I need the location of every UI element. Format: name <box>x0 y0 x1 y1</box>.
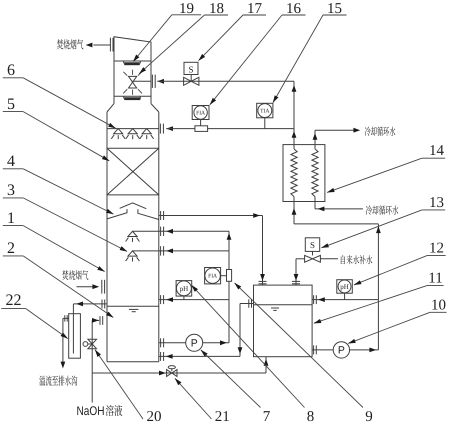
pH meter 12 (tank loop) <box>337 280 353 294</box>
svg-text:4: 4 <box>7 153 15 170</box>
flue gas outlet duct flange at tower top <box>93 44 110 46</box>
HX coil 1 (process side) <box>291 149 297 197</box>
wall flange on spray header <box>159 124 161 134</box>
svg-text:2: 2 <box>7 240 15 257</box>
svg-text:12: 12 <box>429 241 444 257</box>
drain downpipe from standpipe <box>62 318 64 362</box>
svg-text:FIA: FIA <box>208 274 217 280</box>
NaOH sump flange <box>99 316 101 325</box>
pH1 stem <box>183 296 185 300</box>
nozzle line 2 <box>133 250 230 252</box>
text 冷却循环水 (cooling water, top) <box>365 127 396 136</box>
tank pump 10 (P) <box>333 342 349 358</box>
svg-text:9: 9 <box>365 409 373 425</box>
pump P1 suction line <box>159 342 186 344</box>
lower spray nozzle 3b <box>128 251 137 256</box>
tank discharge riser <box>377 224 379 350</box>
svg-text:pH: pH <box>180 285 189 293</box>
text 自来水补水 (tap water makeup) <box>341 255 373 264</box>
demister pad (lower) <box>123 96 125 98</box>
solenoid S 17 <box>184 62 198 74</box>
spray nozzle 6 (left) <box>114 129 123 134</box>
HX coil 2 (cooling side) <box>312 149 318 197</box>
TIA stem <box>264 118 266 129</box>
sump level symbol <box>129 308 138 310</box>
tank pump discharge <box>350 349 379 351</box>
svg-text:pH: pH <box>340 283 349 291</box>
tank inlet flange (tray drain) <box>259 280 267 282</box>
tap water supply line <box>320 258 338 260</box>
svg-text:S: S <box>188 65 193 75</box>
svg-text:8: 8 <box>307 409 315 425</box>
flue gas inlet duct flange <box>101 280 103 294</box>
svg-text:22: 22 <box>6 292 22 309</box>
spray header 5 line <box>107 128 159 130</box>
circulation tank 11 <box>254 285 313 357</box>
tap water down arrow <box>294 274 299 281</box>
packing section 5 (X bed) <box>107 147 159 149</box>
overflow arrow <box>76 302 83 307</box>
label text 焚烧烟气 (incinerated flue gas, outlet) <box>57 39 84 49</box>
circulation pump 7 (P) <box>186 334 203 351</box>
tank pump suction flange <box>313 345 315 354</box>
svg-text:NaOH: NaOH <box>77 404 105 418</box>
collection tray right plate <box>138 209 159 219</box>
tower top wall flange on wash line <box>151 75 153 88</box>
return downflow arrow <box>238 347 243 354</box>
solenoid S 13 (tap water) <box>305 238 319 252</box>
wash water line into tower top <box>133 80 151 82</box>
sump drain line <box>92 372 266 374</box>
svg-text:FIA: FIA <box>196 111 205 117</box>
spray nozzle (middle) <box>128 129 137 134</box>
mist-eliminator wash nozzle 18 (X symbol) <box>129 76 137 82</box>
text 溢流至排水沟 (overflow to drain ditch) <box>39 376 77 386</box>
wash water pipe from valve <box>157 80 294 82</box>
riser-to-HX header <box>294 223 378 225</box>
flow indicator FIA 16 <box>192 106 209 120</box>
svg-text:5: 5 <box>7 96 15 113</box>
wall flange nozzle line 1 <box>160 227 162 236</box>
pH2 stem <box>344 293 346 299</box>
pH meter 8 (sump loop) <box>176 281 192 297</box>
tank pH return line <box>312 299 378 301</box>
svg-text:P: P <box>191 338 198 350</box>
return wall flange <box>160 352 162 361</box>
spray feed pipe <box>166 128 294 130</box>
NaOH line into sump <box>92 319 99 321</box>
flue gas inlet arrow line <box>77 286 93 288</box>
drain valve 21 <box>167 370 172 377</box>
wall flange nozzle line 2 <box>160 246 162 255</box>
svg-text:1: 1 <box>7 210 15 227</box>
overflow wall flange <box>101 300 103 309</box>
overflow standpipe 22 <box>69 314 81 359</box>
svg-text:7: 7 <box>263 409 271 425</box>
tower inlet text 焚烧烟气 (flue gas inlet) <box>62 270 88 280</box>
tank pH flange <box>313 295 315 304</box>
cooling water inlet pipe <box>314 197 316 209</box>
S13 stem <box>312 251 314 255</box>
tank pump suction <box>312 349 333 351</box>
tray drain line to circulation tank <box>159 215 263 217</box>
svg-text:6: 6 <box>7 62 15 79</box>
svg-text:TIA: TIA <box>260 109 269 115</box>
NaOH valve 20 <box>88 339 97 344</box>
tap water tank flange <box>292 280 300 282</box>
pump P1 discharge <box>203 342 229 344</box>
svg-text:21: 21 <box>215 409 230 425</box>
pH line wall flange <box>160 295 162 304</box>
cooling water outlet pipe <box>314 130 316 149</box>
svg-text:3: 3 <box>7 182 15 199</box>
FIA stem <box>221 275 227 277</box>
overflow line from sump <box>73 303 107 305</box>
HX process inlet pipe <box>293 197 295 224</box>
svg-text:14: 14 <box>429 143 445 159</box>
spray nozzle (right) <box>142 129 151 134</box>
tank level symbol <box>271 307 279 309</box>
return tank flange <box>248 299 250 308</box>
standpipe side stub flange <box>63 317 69 319</box>
svg-text:13: 13 <box>429 195 444 211</box>
flow indicator FIA 8-loop <box>205 268 221 284</box>
demister support line 1 <box>114 60 151 62</box>
pH sample line <box>159 299 229 301</box>
liquid collection tray 4 (chevron cap) <box>120 203 147 209</box>
FIA16 stem <box>200 120 202 126</box>
flow element 9 (rotameter) <box>227 270 232 282</box>
heat exchanger 14 shell <box>283 145 325 202</box>
HX process outlet riser <box>293 81 295 149</box>
tank-to-sump return line <box>159 355 240 357</box>
S17 stem <box>190 75 192 82</box>
nozzle line 1 <box>133 230 230 232</box>
nozzle line 2 arrow <box>166 249 173 254</box>
pump suction flange <box>160 338 162 347</box>
spray feed arrow into tower <box>166 126 173 131</box>
tap water valve <box>305 255 313 262</box>
return arrow into sump <box>166 354 173 359</box>
riser to lower nozzles <box>228 231 230 342</box>
orifice flow element <box>195 126 208 132</box>
demister support line 2 <box>114 95 151 97</box>
NaOH solution riser <box>91 320 93 402</box>
drain riser into tank <box>265 357 267 373</box>
sump liquid surface <box>107 305 159 307</box>
svg-text:P: P <box>338 345 345 357</box>
tray drain wall flange <box>160 211 162 220</box>
pH line arrow into sump <box>166 297 173 302</box>
wash water control valve <box>184 77 192 85</box>
svg-text:11: 11 <box>428 271 442 287</box>
demister pad 19 (upper) <box>123 61 125 63</box>
tank inlet arrow (tray drain) <box>260 274 265 281</box>
svg-text:20: 20 <box>147 409 162 425</box>
flue gas outlet arrow <box>86 43 93 48</box>
drain flow arrow <box>159 371 166 376</box>
wash line arrow into tower <box>157 79 164 84</box>
tank liquid surface <box>254 304 313 306</box>
tap water pipe to tank <box>296 258 305 260</box>
nozzle line 1 arrow <box>166 229 173 234</box>
overflow dip tube <box>72 304 74 354</box>
collection tray left plate <box>107 209 127 219</box>
temp indicator TIA 15 <box>257 103 273 118</box>
tank pH arrow <box>318 297 325 302</box>
svg-text:S: S <box>310 240 315 250</box>
text 冷却循环水 (cooling water, bottom) <box>366 205 399 214</box>
scrubber tower shell (absorption column) <box>114 37 151 104</box>
svg-text:10: 10 <box>431 297 446 313</box>
lower spray nozzle 3a <box>128 231 137 236</box>
